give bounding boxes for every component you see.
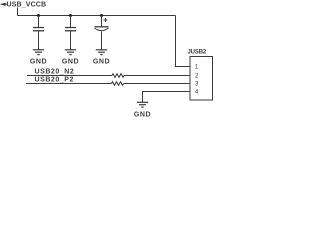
capacitor C1	[33, 16, 44, 50]
svg-text:GND: GND	[93, 59, 110, 66]
capacitor C2	[65, 16, 76, 50]
svg-text:GND: GND	[30, 59, 47, 66]
svg-text:USB20_P2: USB20_P2	[35, 77, 74, 84]
wire: pin 4 to ground	[143, 92, 191, 103]
resistor R2	[112, 82, 124, 86]
wire: bus down to pin 1	[176, 16, 191, 67]
wire USB20_P2 (left of R2)	[26, 83, 112, 85]
wire USB20_P2 (R2 to pin 3)	[124, 83, 191, 85]
junction node at C1	[37, 14, 40, 17]
svg-text:USB_VCCB: USB_VCCB	[7, 2, 47, 9]
junction node at C3	[100, 14, 103, 17]
junction node at C2	[69, 14, 72, 17]
svg-text:GND: GND	[134, 112, 151, 119]
wire USB20_N2 (left of R1)	[27, 75, 112, 77]
wire USB20_N2 (R1 to pin 2)	[124, 75, 190, 77]
wire: horizontal power bus	[18, 15, 176, 17]
ground (pin 4)	[134, 102, 151, 118]
power net label +USB_VCCB	[1, 2, 47, 9]
ground (under C3)	[93, 50, 110, 66]
svg-text:GND: GND	[62, 59, 79, 66]
connector JUSB2	[190, 57, 213, 101]
resistor R1	[112, 74, 124, 78]
svg-text:JUSB2: JUSB2	[188, 50, 207, 56]
ground (under C1)	[30, 50, 47, 66]
ground (under C2)	[62, 50, 79, 66]
wire: lead from power label down to bus	[17, 8, 19, 16]
polarized capacitor C3	[95, 16, 109, 50]
svg-text:USB20_N2: USB20_N2	[35, 69, 75, 76]
